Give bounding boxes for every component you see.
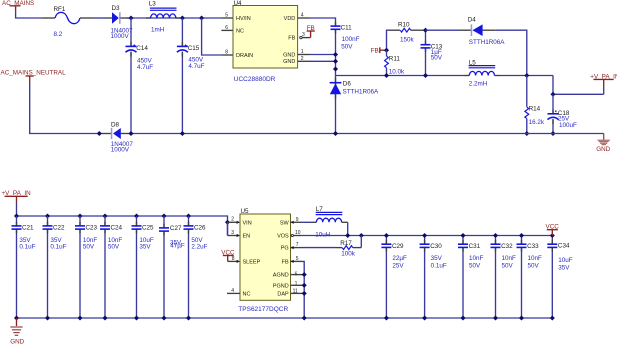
svg-text:C22: C22: [53, 225, 65, 232]
svg-text:50V: 50V: [528, 262, 540, 269]
svg-text:R14: R14: [529, 106, 541, 113]
svg-text:SLEEP: SLEEP: [243, 260, 261, 266]
svg-text:5: 5: [225, 13, 228, 19]
svg-text:1000V: 1000V: [111, 147, 130, 154]
svg-text:STTH1R06A: STTH1R06A: [343, 89, 379, 96]
svg-text:NC: NC: [243, 292, 251, 298]
svg-text:C21: C21: [22, 225, 34, 232]
svg-text:L5: L5: [469, 59, 477, 66]
svg-text:50V: 50V: [83, 244, 95, 251]
svg-text:2: 2: [231, 217, 234, 223]
svg-text:STTH1R06A: STTH1R06A: [469, 39, 505, 46]
svg-text:C27: C27: [170, 225, 182, 232]
svg-text:+V_PA_IN: +V_PA_IN: [590, 74, 617, 81]
svg-text:EN: EN: [243, 234, 251, 240]
svg-text:FB: FB: [282, 260, 289, 266]
svg-text:C24: C24: [111, 225, 123, 232]
svg-text:RF1: RF1: [54, 6, 66, 13]
svg-text:C34: C34: [558, 242, 570, 249]
svg-text:UCC28880DR: UCC28880DR: [234, 76, 276, 83]
svg-text:50V: 50V: [469, 262, 481, 269]
svg-text:DRAIN: DRAIN: [236, 53, 253, 59]
svg-text:GND: GND: [283, 52, 295, 58]
svg-text:10nF: 10nF: [469, 255, 484, 262]
svg-text:R11: R11: [389, 55, 401, 62]
svg-text:50V: 50V: [108, 244, 120, 251]
svg-text:C30: C30: [430, 243, 442, 250]
svg-text:4.7uF: 4.7uF: [137, 64, 153, 71]
svg-text:47µF: 47µF: [170, 243, 185, 250]
svg-text:R10: R10: [398, 21, 410, 28]
svg-text:100k: 100k: [341, 250, 356, 257]
svg-text:GND: GND: [10, 339, 24, 344]
svg-text:1: 1: [295, 281, 298, 287]
svg-text:PGND: PGND: [273, 283, 289, 289]
svg-text:10.0k: 10.0k: [389, 69, 405, 76]
svg-text:25V: 25V: [392, 262, 404, 269]
svg-text:2.2mH: 2.2mH: [469, 81, 488, 88]
svg-text:AGND: AGND: [273, 273, 289, 279]
svg-text:TPS62177DQCR: TPS62177DQCR: [238, 306, 288, 313]
svg-text:50V: 50V: [431, 55, 443, 62]
svg-text:VOS: VOS: [277, 234, 289, 240]
svg-text:FB: FB: [307, 25, 315, 32]
svg-text:HV/IN: HV/IN: [236, 16, 251, 22]
svg-text:U5: U5: [241, 208, 250, 215]
svg-text:C26: C26: [194, 225, 206, 232]
svg-text:GND: GND: [596, 146, 610, 153]
svg-text:D3: D3: [112, 5, 121, 12]
svg-text:NC: NC: [236, 28, 244, 34]
svg-text:22µF: 22µF: [392, 255, 407, 262]
svg-text:GND: GND: [283, 59, 295, 65]
svg-text:C15: C15: [188, 45, 200, 52]
svg-text:VDD: VDD: [284, 16, 296, 22]
svg-text:PG: PG: [281, 246, 289, 252]
svg-text:100nF: 100nF: [342, 36, 360, 43]
svg-text:C32: C32: [501, 243, 513, 250]
svg-text:8: 8: [225, 50, 228, 56]
svg-text:16.2k: 16.2k: [529, 119, 545, 126]
svg-text:C31: C31: [469, 243, 481, 250]
svg-text:D8: D8: [111, 121, 120, 128]
svg-text:SW: SW: [280, 221, 290, 227]
svg-text:10nF: 10nF: [502, 255, 517, 262]
svg-text:35V: 35V: [431, 255, 443, 262]
svg-text:10nF: 10nF: [528, 255, 543, 262]
svg-text:C33: C33: [527, 243, 539, 250]
svg-text:C25: C25: [142, 225, 154, 232]
svg-text:D6: D6: [343, 81, 352, 88]
svg-text:FB: FB: [288, 36, 295, 42]
svg-text:C23: C23: [86, 225, 98, 232]
svg-text:35V: 35V: [139, 244, 151, 251]
svg-text:2.2uF: 2.2uF: [191, 244, 207, 251]
svg-text:4.7uF: 4.7uF: [188, 63, 204, 70]
svg-text:150k: 150k: [400, 36, 415, 43]
svg-text:C14: C14: [136, 45, 148, 52]
svg-text:35V: 35V: [558, 264, 570, 271]
svg-text:L7: L7: [316, 206, 324, 213]
svg-text:VIN: VIN: [243, 220, 252, 226]
svg-text:C11: C11: [341, 25, 353, 32]
svg-text:6: 6: [225, 25, 228, 31]
svg-text:C29: C29: [392, 243, 404, 250]
svg-text:U4: U4: [234, 0, 243, 7]
svg-text:FB: FB: [371, 47, 379, 54]
svg-text:0.1uF: 0.1uF: [50, 244, 66, 251]
svg-text:0.1uF: 0.1uF: [431, 262, 447, 269]
svg-text:R17: R17: [340, 240, 352, 247]
svg-text:10uF: 10uF: [558, 257, 573, 264]
svg-text:100uF: 100uF: [559, 122, 577, 129]
svg-text:50V: 50V: [341, 43, 353, 50]
svg-text:8.2: 8.2: [54, 31, 63, 38]
svg-text:1000V: 1000V: [111, 33, 130, 40]
svg-text:L3: L3: [149, 1, 157, 8]
svg-text:0.1uF: 0.1uF: [19, 244, 35, 251]
svg-text:50V: 50V: [502, 262, 514, 269]
svg-text:DAP: DAP: [277, 291, 289, 297]
svg-text:1mH: 1mH: [151, 27, 165, 34]
svg-text:3: 3: [231, 230, 234, 236]
svg-text:D4: D4: [468, 16, 477, 23]
